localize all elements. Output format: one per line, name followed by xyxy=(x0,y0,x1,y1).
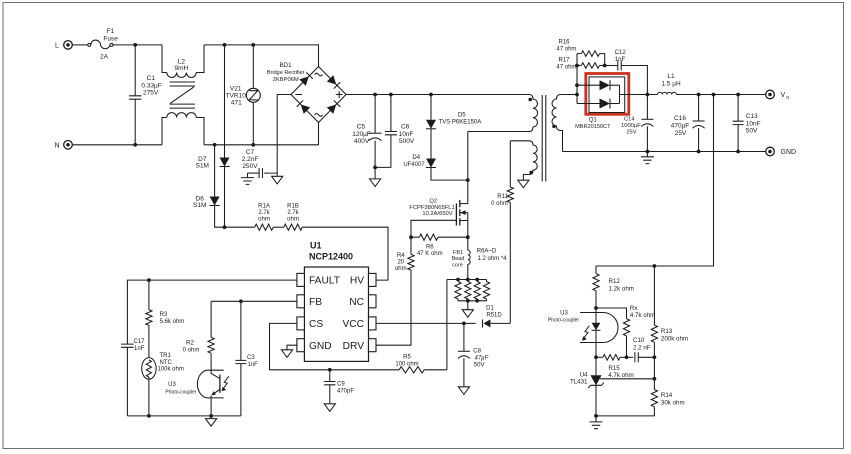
svg-text:0.33µF: 0.33µF xyxy=(141,82,161,89)
wire R1B to HV pin xyxy=(302,227,388,280)
svg-text:50V: 50V xyxy=(746,128,758,135)
junction C1 bottom xyxy=(133,143,137,147)
label Rx 4.7k ohm xyxy=(630,305,655,319)
svg-text:S1M: S1M xyxy=(193,202,206,209)
label C10 2.2 nF xyxy=(633,337,651,351)
junction R3 top xyxy=(147,278,151,282)
thermistor TR1 xyxy=(142,325,156,416)
svg-text:C16: C16 xyxy=(674,115,686,122)
label R5 100 ohm xyxy=(395,355,418,368)
wire bottom-left ground rail xyxy=(127,415,240,417)
transistor Q2 channel xyxy=(459,200,461,226)
ground U1 GND pin xyxy=(281,345,297,357)
junction R16 R17 right xyxy=(603,64,607,68)
svg-text:Rx: Rx xyxy=(630,305,638,312)
U1 pin pad VCC xyxy=(369,317,377,330)
terminal L (line input) xyxy=(55,41,72,50)
svg-text:R17: R17 xyxy=(558,58,570,64)
capacitor C16 xyxy=(693,95,705,152)
capacitor C1 xyxy=(129,45,142,145)
svg-text:U3: U3 xyxy=(168,382,176,388)
label R12 1.2k ohm xyxy=(609,278,634,292)
label V21 TVR10 471 xyxy=(226,86,247,107)
capacitor C14 xyxy=(641,95,653,152)
junction D7 line on L rail xyxy=(223,43,227,47)
svg-text:C3: C3 xyxy=(247,355,255,361)
svg-text:100k ohm: 100k ohm xyxy=(158,367,184,373)
svg-text:4.7k ohm: 4.7k ohm xyxy=(608,372,633,379)
svg-text:R4: R4 xyxy=(397,253,405,259)
svg-text:C6: C6 xyxy=(401,124,410,131)
photo light arrow from LED xyxy=(582,326,589,341)
label D1 R51D xyxy=(486,306,502,319)
svg-text:R6A~D: R6A~D xyxy=(477,249,497,255)
label D7 S1M xyxy=(196,156,209,170)
svg-text:1000µF: 1000µF xyxy=(621,123,641,129)
resistor Rx 4.7k xyxy=(596,308,630,357)
label D4 UF4007 xyxy=(403,155,425,168)
label Q1 MBR20150CT xyxy=(575,118,611,131)
resistor R1B xyxy=(273,224,302,230)
svg-text:500V: 500V xyxy=(399,138,415,145)
junction V21 on L rail xyxy=(251,43,255,47)
svg-text:C5: C5 xyxy=(357,124,366,131)
photo-coupler U3 body (transistor side) xyxy=(197,370,223,398)
svg-text:0 ohm: 0 ohm xyxy=(183,348,200,354)
svg-text:C8: C8 xyxy=(473,349,481,355)
svg-text:S1M: S1M xyxy=(196,163,209,170)
svg-text:GND: GND xyxy=(781,149,797,156)
inductor L2 core xyxy=(170,82,196,108)
svg-text:2A: 2A xyxy=(100,54,109,61)
U1 pin pad GND xyxy=(297,339,305,352)
photo-coupler U3 body (LED side) xyxy=(580,313,618,343)
wire secondary to anode bus xyxy=(576,54,578,104)
svg-text:NC: NC xyxy=(349,297,364,308)
svg-text:CS: CS xyxy=(309,319,323,330)
ground small output xyxy=(641,152,654,164)
label C12 1nF xyxy=(615,50,627,63)
wire cathode stubs xyxy=(610,85,619,103)
wire R15 to C10 xyxy=(620,356,633,358)
label R17 47 ohm xyxy=(556,58,576,71)
svg-text:R13: R13 xyxy=(661,328,673,335)
diode D1 xyxy=(464,319,510,327)
label C6 10nF 500V xyxy=(399,124,415,146)
svg-text:L1: L1 xyxy=(667,73,675,80)
label R16 47 ohm xyxy=(556,40,576,53)
capacitor C8 xyxy=(458,323,470,386)
svg-text:Q2: Q2 xyxy=(429,199,437,205)
svg-text:N: N xyxy=(54,142,59,149)
U1 pin pad NC xyxy=(369,295,377,308)
wire FB line xyxy=(211,300,297,302)
capacitor C17 xyxy=(121,344,134,416)
svg-text:10.2A/650V: 10.2A/650V xyxy=(422,211,452,217)
label R13 200k ohm xyxy=(661,328,688,342)
junction D7 D6 join xyxy=(223,225,227,229)
svg-text:R1A: R1A xyxy=(258,203,270,209)
svg-text:5.6k ohm: 5.6k ohm xyxy=(160,319,185,325)
U1 pin labels left xyxy=(309,276,340,352)
resistor R17 47 ohm xyxy=(577,63,605,69)
diode D4 xyxy=(426,129,436,168)
ground chassis C9 xyxy=(324,404,335,412)
diode Q1 top half xyxy=(600,80,611,90)
dual diode Q1 package box xyxy=(589,77,625,113)
junction secondary feed xyxy=(575,93,579,97)
junction C10 R13 xyxy=(653,355,657,359)
label C5 120uF 400V xyxy=(352,124,371,146)
svg-text:FB: FB xyxy=(309,297,322,308)
U1 pin pad CS xyxy=(297,317,305,330)
wire secondary ground rail xyxy=(563,151,766,153)
label R3 5.6k ohm xyxy=(160,312,185,325)
inductor L1 xyxy=(658,92,677,94)
terminal N (neutral input) xyxy=(54,141,72,150)
svg-text:Bridge Rectifier: Bridge Rectifier xyxy=(267,70,305,76)
resistor R6B xyxy=(465,280,471,301)
svg-text:VCC: VCC xyxy=(342,319,364,330)
label C9 470pF xyxy=(337,382,354,395)
transformer T1 auxiliary winding xyxy=(510,141,537,180)
resistor R15 4.7k xyxy=(596,355,620,361)
junction R13 top xyxy=(653,264,657,268)
label C7 2.2nF 250V xyxy=(242,149,259,170)
resistor R14 30k xyxy=(596,379,658,416)
svg-text:BD1: BD1 xyxy=(279,62,292,69)
label R6 47 K ohm xyxy=(417,244,443,257)
label F1 Fuse 2A xyxy=(100,28,118,61)
junction R6A top xyxy=(456,278,460,282)
ground small U4 xyxy=(590,416,603,429)
ground small C7 left xyxy=(241,173,254,184)
svg-text:1nF: 1nF xyxy=(134,346,145,352)
wire VCC line xyxy=(376,322,464,324)
svg-text:470pF: 470pF xyxy=(337,389,354,395)
label R1A 2.7k ohm xyxy=(258,203,271,222)
ground chassis aux winding xyxy=(518,180,529,188)
svg-text:47µF: 47µF xyxy=(475,356,489,362)
bridge diode upper-left xyxy=(299,72,313,86)
transformer T1 primary phase dot xyxy=(528,98,532,102)
wire Vo sense line xyxy=(596,95,714,267)
ground chassis R6 pack xyxy=(462,301,473,318)
svg-text:ohm: ohm xyxy=(287,216,299,222)
label R4 20 ohm xyxy=(395,253,407,272)
svg-text:TL431: TL431 xyxy=(570,379,588,386)
svg-text:1nF: 1nF xyxy=(615,57,626,63)
capacitor C12 xyxy=(605,61,648,95)
label C17 1nF xyxy=(134,339,146,352)
ground chassis bridge minus xyxy=(272,173,283,184)
label R11 0 ohm xyxy=(491,194,508,207)
svg-text:R16: R16 xyxy=(558,40,570,46)
svg-text:Bead: Bead xyxy=(452,256,465,262)
transistor Q2 source xyxy=(460,213,468,251)
svg-text:U4: U4 xyxy=(580,371,588,378)
op-amp U1 NCP12400 box xyxy=(304,267,368,361)
svg-text:Photo-coupler: Photo-coupler xyxy=(548,318,579,324)
fuse F1 xyxy=(88,40,113,49)
svg-text:U1: U1 xyxy=(310,241,322,251)
svg-text:10nF: 10nF xyxy=(746,120,761,127)
junction R6C top xyxy=(475,278,479,282)
junction drain node xyxy=(466,178,470,182)
svg-text:Fuse: Fuse xyxy=(103,36,118,43)
junction source R6 xyxy=(466,235,470,239)
svg-text:2.2 nF: 2.2 nF xyxy=(633,344,651,351)
svg-text:R6: R6 xyxy=(426,244,434,250)
label TR1 NTC 100k ohm xyxy=(158,353,184,373)
svg-text:R15: R15 xyxy=(608,365,620,372)
diode D5 TVS xyxy=(426,95,436,129)
resistor R6C xyxy=(474,280,480,301)
junction C3 top xyxy=(239,299,243,303)
svg-text:Q1: Q1 xyxy=(589,118,598,124)
svg-text:1.2k ohm: 1.2k ohm xyxy=(609,285,634,292)
svg-text:FCPF380N65FL1: FCPF380N65FL1 xyxy=(409,205,454,211)
resistor R13 200k xyxy=(651,266,657,379)
svg-text:1nF: 1nF xyxy=(248,362,259,368)
resistor R16 47 ohm xyxy=(577,51,605,66)
svg-text:L: L xyxy=(55,42,59,49)
U1 pin pad HV xyxy=(369,273,377,286)
junction C14 xyxy=(646,93,650,97)
capacitor C7 xyxy=(248,168,263,178)
wire L rail choke to bridge xyxy=(204,45,319,67)
transistor Q2 gate bar xyxy=(455,204,457,226)
shunt regulator U4 TL431 xyxy=(588,357,604,416)
bridge rectifier BD1 outline xyxy=(291,67,346,123)
svg-text:R14: R14 xyxy=(661,392,673,399)
transformer T1 secondary winding xyxy=(552,95,577,152)
svg-text:47 ohm: 47 ohm xyxy=(556,47,576,53)
svg-text:0 ohm: 0 ohm xyxy=(491,201,508,207)
junction V21 bottom on N rail xyxy=(251,143,255,147)
svg-text:R1B: R1B xyxy=(287,203,299,209)
photo light arrow into U3 xyxy=(221,376,228,391)
ground chassis left xyxy=(206,416,217,426)
svg-text:Photo-coupler: Photo-coupler xyxy=(165,390,196,396)
label D6 S1M xyxy=(193,195,206,209)
junction C14 bottom xyxy=(646,150,650,154)
svg-text:R2: R2 xyxy=(186,341,194,347)
label U1 NCP12400 xyxy=(309,241,353,262)
resistor R6D xyxy=(483,280,489,301)
svg-text:20: 20 xyxy=(397,259,404,265)
transformer T1 primary winding xyxy=(468,95,538,132)
diode Q1 bottom half xyxy=(600,99,611,109)
wire N terminal to choke xyxy=(72,144,162,146)
wire output rail xyxy=(620,94,658,96)
junction anode top xyxy=(575,83,579,87)
junction LED cathode node xyxy=(594,355,598,359)
label C8 47uF 50V xyxy=(473,349,488,369)
label R6A-D 1.2 ohm *4 xyxy=(477,249,507,263)
transistor Q2 body arrow xyxy=(460,210,468,215)
junction TR1 bottom xyxy=(147,414,151,418)
svg-text:4.7k ohm: 4.7k ohm xyxy=(630,312,655,319)
svg-text:D5: D5 xyxy=(458,112,466,118)
junction C6 xyxy=(389,93,393,97)
inductor L2 lower winding xyxy=(162,113,204,145)
bridge diode lower-right xyxy=(327,100,341,114)
label C1 0.33uF 275V xyxy=(141,75,161,97)
U1 pin pad FB xyxy=(297,295,305,308)
junction C13 bottom xyxy=(736,150,740,154)
diode D6 xyxy=(210,145,225,227)
resistor R5 100 ohm xyxy=(270,323,447,373)
svg-text:30k ohm: 30k ohm xyxy=(661,399,685,406)
junction C13 top xyxy=(736,93,740,97)
photo-transistor U3 xyxy=(211,372,220,416)
transformer T1 core xyxy=(542,95,546,182)
svg-text:F1: F1 xyxy=(107,28,115,35)
junction sense top xyxy=(712,93,716,97)
wire L1 to Vo xyxy=(677,94,766,96)
svg-text:FAULT: FAULT xyxy=(309,276,340,287)
capacitor C5 xyxy=(369,95,382,168)
transformer T1 secondary phase dot xyxy=(552,125,556,129)
label Q2 FCPF380N65FL1 10.2A/650V xyxy=(409,199,454,218)
svg-text:9mH: 9mH xyxy=(175,65,189,72)
svg-text:FB1: FB1 xyxy=(453,250,463,256)
ground chassis C5 xyxy=(370,167,381,186)
terminal Vo xyxy=(766,90,790,101)
label C16 470uF 25V xyxy=(671,115,690,137)
diode D7 xyxy=(220,45,230,227)
U1 pin pad FAULT xyxy=(297,273,305,286)
svg-text:D1: D1 xyxy=(486,306,494,312)
label U4 TL431 xyxy=(570,371,588,385)
bridge diode upper-right xyxy=(327,75,341,89)
resistor R2 0 ohm xyxy=(208,301,214,372)
wire L terminal to fuse xyxy=(72,44,87,46)
label C14 1000uF 25V xyxy=(621,116,641,135)
junction C1 top xyxy=(133,43,137,47)
junction R6B top xyxy=(466,278,470,282)
wire R6 top bar to R5 xyxy=(446,280,448,370)
resistor R12 1.2k xyxy=(593,266,599,308)
svg-text:TVS P6KE150A: TVS P6KE150A xyxy=(439,119,482,125)
varistor V21 xyxy=(246,45,260,145)
junction Rx bottom xyxy=(625,355,629,359)
svg-text:10nF: 10nF xyxy=(399,131,414,138)
ground chassis C8 xyxy=(458,387,469,395)
svg-text:o: o xyxy=(786,95,789,101)
svg-text:C12: C12 xyxy=(615,50,627,56)
svg-text:400V: 400V xyxy=(354,138,370,145)
svg-text:NCP12400: NCP12400 xyxy=(309,252,353,262)
junction C16 top xyxy=(697,93,701,97)
label R1B 2.7k ohm xyxy=(287,203,300,222)
svg-text:471: 471 xyxy=(231,99,242,106)
svg-text:GND: GND xyxy=(309,341,332,352)
svg-text:25V: 25V xyxy=(626,129,636,135)
svg-text:1.2 ohm *4: 1.2 ohm *4 xyxy=(477,256,507,262)
svg-text:C10: C10 xyxy=(633,337,645,344)
svg-text:ohm: ohm xyxy=(395,266,407,272)
label C13 10nF 50V xyxy=(746,113,761,135)
label FB1 Bead core xyxy=(452,250,465,269)
junction C16 bottom xyxy=(697,150,701,154)
svg-text:C13: C13 xyxy=(746,113,758,120)
capacitor C9 xyxy=(324,370,335,404)
resistor R1A xyxy=(225,224,274,230)
wire N rail choke to bridge xyxy=(204,123,319,145)
svg-text:25V: 25V xyxy=(675,130,687,137)
svg-text:200k ohm: 200k ohm xyxy=(661,335,688,342)
svg-text:275V: 275V xyxy=(143,90,159,97)
label C3 1nF xyxy=(247,355,258,368)
svg-text:2.7k: 2.7k xyxy=(258,210,270,216)
ferrite bead FB1 xyxy=(468,250,470,279)
svg-text:R5: R5 xyxy=(403,355,411,361)
svg-text:120µF: 120µF xyxy=(352,131,371,138)
svg-text:47 ohm: 47 ohm xyxy=(556,65,576,71)
svg-text:R51D: R51D xyxy=(486,312,502,318)
junction R6C bottom xyxy=(475,299,479,303)
svg-text:1.5 µH: 1.5 µH xyxy=(661,80,681,87)
svg-text:47 K ohm: 47 K ohm xyxy=(417,251,443,257)
capacitor C3 xyxy=(235,301,246,416)
svg-text:D4: D4 xyxy=(412,155,420,161)
resistor R4 20 ohm xyxy=(376,237,414,345)
junction C9 xyxy=(328,368,332,372)
junction R17 left xyxy=(575,64,579,68)
svg-text:C1: C1 xyxy=(147,75,156,82)
bridge diode lower-left xyxy=(297,100,311,114)
wire U4 ref xyxy=(600,378,655,380)
svg-text:C14: C14 xyxy=(624,116,635,122)
svg-text:C9: C9 xyxy=(337,382,345,388)
svg-text:50V: 50V xyxy=(474,363,485,369)
U1 pin labels right xyxy=(342,276,364,352)
resistor R6 47k xyxy=(411,234,468,240)
label U3 Photo-coupler right xyxy=(548,310,579,323)
svg-text:ohm: ohm xyxy=(258,216,270,222)
resistor R6A xyxy=(455,280,461,301)
svg-text:HV: HV xyxy=(350,276,364,287)
capacitor C10 xyxy=(635,352,655,362)
svg-text:U3: U3 xyxy=(560,310,568,316)
svg-text:R11: R11 xyxy=(497,194,508,200)
resistor R11 xyxy=(507,141,513,323)
junction U4 anode xyxy=(594,414,598,418)
svg-text:C17: C17 xyxy=(134,339,146,345)
label R15 4.7k ohm xyxy=(608,365,633,379)
terminal GND xyxy=(766,147,796,156)
junction D5 xyxy=(429,93,433,97)
label BD1 Bridge Rectifier 2KBP06M xyxy=(267,62,305,83)
label R2 0 ohm xyxy=(183,341,200,354)
resistor pack R6A-D bars xyxy=(447,280,487,301)
svg-text:2.7k: 2.7k xyxy=(287,210,299,216)
wire FAULT line xyxy=(127,280,297,344)
svg-text:V: V xyxy=(781,92,786,99)
junction gate node xyxy=(409,235,413,239)
label U3 Photo-coupler left xyxy=(165,382,196,396)
svg-text:R12: R12 xyxy=(609,278,621,285)
wire gate xyxy=(411,220,456,237)
transistor Q2 drain xyxy=(460,132,468,204)
junction LED anode xyxy=(594,306,598,310)
resistor R3 5.6k xyxy=(146,280,152,325)
wire anode stubs xyxy=(577,85,600,103)
junction C5 C6 bottom xyxy=(373,166,377,170)
label R14 30k ohm xyxy=(661,392,685,406)
